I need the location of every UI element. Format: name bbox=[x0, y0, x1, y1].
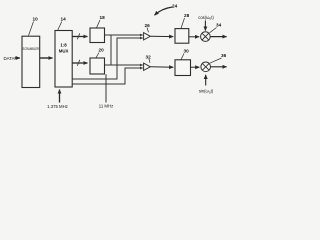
wire vertical branch x111 bbox=[110, 35, 112, 65]
D/A converter 18 bbox=[90, 28, 105, 43]
callout 30 bbox=[181, 49, 189, 60]
svg-text:10: 10 bbox=[33, 17, 39, 22]
wire filter 30 to mixer 36 bbox=[191, 66, 200, 68]
scrambler 10 bbox=[22, 36, 40, 87]
wire mixer 34 output bbox=[210, 36, 226, 38]
callout 32 bbox=[146, 55, 152, 63]
filter 30 bbox=[175, 60, 191, 76]
mixer 36 bbox=[201, 62, 211, 72]
svg-text:SCRAMBLER: SCRAMBLER bbox=[23, 47, 40, 51]
callout 18 bbox=[97, 15, 106, 28]
svg-text:36: 36 bbox=[221, 53, 227, 58]
D/A converter 20 bbox=[90, 58, 105, 74]
wire sin LO arrow bbox=[205, 75, 207, 86]
svg-text:24: 24 bbox=[172, 4, 178, 9]
amp 26 bbox=[144, 33, 151, 40]
wire D/A 18 output to amp 26 bbox=[105, 34, 143, 36]
wire second input to amp 26 bbox=[72, 38, 143, 79]
svg-text:28: 28 bbox=[184, 13, 190, 18]
callout 24 curved leader bbox=[155, 4, 178, 16]
wire second input to amp 32 bbox=[72, 68, 143, 84]
wire mixer 36 output bbox=[211, 66, 227, 68]
amp 32 bbox=[144, 63, 151, 70]
wire mux to D/A 20 (bus) bbox=[72, 60, 87, 66]
svg-text:14: 14 bbox=[61, 17, 67, 22]
svg-text:DATA: DATA bbox=[4, 56, 15, 61]
clock input 11 MHz bbox=[99, 74, 114, 108]
svg-text:20: 20 bbox=[99, 48, 105, 53]
wire cos LO arrow bbox=[204, 21, 206, 31]
svg-text:cos(ωot): cos(ωot) bbox=[198, 15, 214, 21]
mux 14 bbox=[55, 31, 72, 88]
mixer 34 bbox=[201, 32, 211, 42]
svg-text:MUX: MUX bbox=[59, 49, 69, 54]
wire DATA input arrow bbox=[15, 57, 20, 59]
svg-text:1:8: 1:8 bbox=[60, 42, 67, 47]
svg-text:1.375 MHz: 1.375 MHz bbox=[47, 104, 68, 109]
clock input 1.375 MHz bbox=[47, 90, 68, 110]
callout 28 bbox=[181, 13, 190, 28]
svg-text:18: 18 bbox=[100, 15, 106, 20]
callout 26 bbox=[145, 23, 151, 32]
svg-text:34: 34 bbox=[216, 23, 222, 28]
svg-text:26: 26 bbox=[145, 23, 151, 28]
svg-text:32: 32 bbox=[146, 55, 152, 60]
callout 10 bbox=[29, 17, 39, 36]
callout 36 bbox=[210, 53, 227, 63]
filter 28 bbox=[175, 29, 189, 44]
wire amp 26 to filter 28 bbox=[150, 35, 173, 37]
wire scrambler to mux bbox=[40, 57, 53, 59]
wire mux to D/A 18 (bus) bbox=[72, 33, 87, 39]
svg-text:30: 30 bbox=[184, 49, 190, 54]
wire amp 32 to filter 30 bbox=[150, 66, 173, 68]
svg-text:11 MHz: 11 MHz bbox=[99, 104, 114, 109]
callout 34 bbox=[210, 23, 222, 33]
callout 14 bbox=[58, 17, 66, 31]
svg-text:sin(ωot): sin(ωot) bbox=[199, 89, 214, 95]
wire filter 28 to mixer 34 bbox=[189, 36, 199, 38]
callout 20 bbox=[96, 48, 104, 58]
wire D/A 20 output to amp 32 bbox=[105, 64, 143, 66]
